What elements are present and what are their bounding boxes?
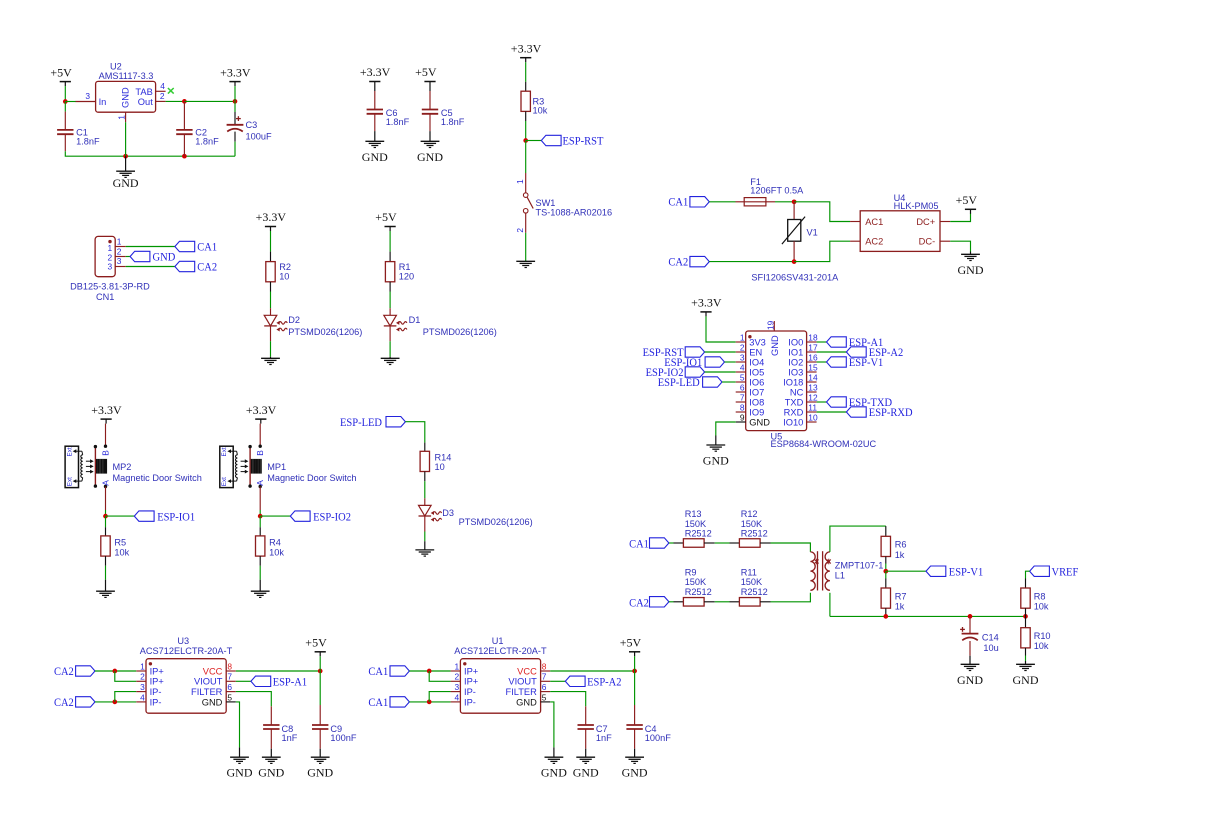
svg-text:ESP-V1: ESP-V1: [949, 564, 983, 578]
svg-text:4: 4: [455, 692, 460, 702]
wire: [236, 670, 320, 672]
junction: [792, 259, 797, 264]
svg-text:+5V: +5V: [956, 193, 978, 207]
IC U1 pin 2 IP+: [451, 680, 461, 682]
ground: [270, 357, 272, 359]
resistor R7: [885, 571, 887, 578]
svg-text:R2512: R2512: [685, 529, 712, 539]
svg-text:1206FT 0.5A: 1206FT 0.5A: [750, 186, 804, 196]
svg-text:SFI1206SV431-201A: SFI1206SV431-201A: [751, 272, 839, 282]
svg-text:B: B: [255, 450, 265, 456]
capacitor C14: [969, 616, 971, 633]
wire: [95, 701, 136, 703]
svg-text:U2: U2: [110, 61, 122, 71]
wire: [715, 601, 730, 603]
svg-text:R2512: R2512: [741, 529, 768, 539]
LED D2: [270, 308, 272, 315]
svg-text:5: 5: [542, 692, 547, 702]
wire: [1025, 656, 1027, 662]
resistor R6: [885, 526, 887, 536]
svg-text:ESP8684-WROOM-02UC: ESP8684-WROOM-02UC: [771, 439, 877, 449]
net flag GND: [130, 251, 150, 261]
svg-text:CA2: CA2: [668, 255, 688, 269]
svg-text:R13: R13: [685, 509, 702, 519]
wire: [236, 702, 240, 748]
ground: [270, 749, 272, 758]
wire: [429, 671, 450, 681]
wire: [64, 102, 66, 112]
svg-text:FILTER: FILTER: [191, 687, 223, 697]
svg-text:GND: GND: [703, 454, 729, 468]
wire: [705, 351, 736, 353]
wire: [705, 371, 736, 373]
svg-text:1: 1: [455, 661, 460, 671]
svg-text:11: 11: [808, 402, 817, 412]
svg-text:GND: GND: [573, 766, 599, 780]
svg-text:16: 16: [808, 352, 818, 362]
junction: [968, 614, 973, 619]
net flag ESP-A1: [236, 680, 251, 682]
wire: [270, 231, 272, 252]
wire: [115, 671, 136, 681]
svg-text:100nF: 100nF: [330, 733, 356, 743]
svg-text:GND: GND: [957, 673, 983, 687]
svg-text:1: 1: [108, 243, 113, 253]
ground: [374, 131, 376, 141]
junction: [233, 99, 238, 104]
net flag ESP-RXD: [817, 411, 847, 413]
svg-text:1nF: 1nF: [596, 733, 612, 743]
svg-text:R6: R6: [895, 540, 907, 550]
svg-text:IO5: IO5: [749, 367, 764, 377]
wire: [550, 702, 554, 748]
wire: [634, 656, 636, 671]
svg-text:IO8: IO8: [749, 397, 764, 407]
svg-text:ZMPT107-1: ZMPT107-1: [835, 560, 884, 570]
transformer L1 primary: [810, 552, 815, 590]
svg-text:ESP-IO1: ESP-IO1: [157, 509, 195, 523]
svg-text:19: 19: [765, 320, 775, 330]
svg-text:+3.3V: +3.3V: [691, 296, 722, 310]
wire: [722, 381, 736, 383]
transformer L1 polarity marks: [815, 560, 819, 564]
wire: [669, 542, 674, 544]
wire: [950, 241, 970, 251]
svg-text:1k: 1k: [895, 602, 905, 612]
resistor R1: [389, 252, 391, 262]
junction: [182, 154, 187, 159]
wire: [105, 510, 107, 516]
net flag ESP-V1: [817, 361, 827, 363]
svg-text:10k: 10k: [269, 547, 284, 557]
svg-text:7: 7: [740, 392, 745, 402]
svg-text:2: 2: [455, 672, 460, 682]
svg-text:C3: C3: [246, 120, 258, 130]
wire: [709, 261, 794, 263]
capacitor C6: [374, 86, 376, 91]
wire: [389, 231, 391, 252]
capacitor C9: [319, 671, 321, 705]
resistor R9: [674, 601, 684, 603]
svg-text:R2512: R2512: [741, 587, 768, 597]
junction: [63, 99, 68, 104]
net flag ESP-V1: [886, 570, 926, 572]
svg-text:100uF: 100uF: [246, 131, 272, 141]
wire: [389, 341, 391, 357]
svg-text:ACS712ELCTR-20A-T: ACS712ELCTR-20A-T: [140, 646, 233, 656]
ground: [389, 357, 391, 359]
net flag ESP-TXD: [817, 401, 827, 403]
junction: [182, 99, 187, 104]
svg-text:5: 5: [740, 372, 745, 382]
ground: [319, 749, 321, 758]
svg-text:HLK-PM05: HLK-PM05: [894, 201, 939, 211]
IC U5 pin 7 IO8: [736, 401, 746, 403]
svg-text:IO10: IO10: [783, 417, 803, 427]
svg-text:GND: GND: [202, 697, 223, 707]
svg-text:IO2: IO2: [788, 357, 803, 367]
svg-text:8: 8: [740, 402, 745, 412]
capacitor C4: [634, 671, 636, 705]
svg-text:120: 120: [399, 272, 414, 282]
wire: [526, 140, 542, 142]
svg-text:GND: GND: [227, 766, 253, 780]
ground: [239, 747, 241, 757]
svg-text:CA2: CA2: [197, 259, 217, 273]
svg-text:IO3: IO3: [788, 367, 803, 377]
ground: [259, 580, 261, 592]
svg-text:15: 15: [808, 362, 818, 372]
svg-text:GND: GND: [417, 150, 443, 164]
wire: [270, 341, 272, 357]
svg-text:GND: GND: [1013, 673, 1039, 687]
svg-text:IP+: IP+: [150, 666, 164, 676]
wire: [709, 201, 735, 203]
wire: [65, 101, 76, 103]
svg-text:7: 7: [542, 672, 547, 682]
transformer L1 secondary: [825, 552, 830, 590]
svg-text:D1: D1: [409, 315, 421, 325]
svg-text:IO18: IO18: [783, 377, 803, 387]
wire: [95, 670, 136, 672]
wire: [794, 241, 850, 261]
IC U3 pin 3 IP-: [136, 691, 146, 693]
ground: [105, 580, 107, 592]
wire: [794, 202, 850, 222]
svg-text:Magnetic Door Switch: Magnetic Door Switch: [267, 473, 356, 483]
ground: [429, 131, 431, 141]
svg-text:IP-: IP-: [150, 687, 162, 697]
svg-text:CA1: CA1: [629, 536, 649, 550]
svg-text:L1: L1: [835, 571, 845, 581]
svg-text:ESP-IO2: ESP-IO2: [313, 509, 351, 523]
svg-text:VREF: VREF: [1052, 564, 1079, 578]
junction: [112, 700, 117, 705]
svg-text:ACS712ELCTR-20A-T: ACS712ELCTR-20A-T: [454, 646, 547, 656]
ground: [125, 156, 127, 171]
svg-text:1: 1: [117, 237, 122, 247]
no-connect X: [168, 88, 174, 94]
wire: [236, 692, 271, 707]
wire: [771, 543, 811, 552]
wire: [126, 256, 130, 258]
svg-text:+3.3V: +3.3V: [91, 403, 122, 417]
wire: [166, 100, 185, 102]
LED D3: [424, 498, 426, 505]
capacitor C1: [64, 112, 66, 130]
wire: [259, 510, 261, 516]
wire: [319, 656, 321, 671]
IC U3 pin 7 VIOUT: [226, 680, 236, 682]
IC U3 pin 1 IP+: [136, 670, 146, 672]
svg-text:VIOUT: VIOUT: [194, 677, 223, 687]
svg-text:8: 8: [227, 661, 232, 671]
svg-text:4: 4: [140, 692, 145, 702]
svg-text:U3: U3: [177, 636, 189, 646]
junction: [792, 199, 797, 204]
net flag ESP-A2: [550, 680, 565, 682]
svg-text:GND: GND: [121, 87, 131, 108]
capacitor C2: [183, 101, 185, 129]
junction: [103, 514, 108, 519]
connector CN1 pin 1: [115, 246, 126, 248]
svg-text:DB125-3.81-3P-RD: DB125-3.81-3P-RD: [70, 281, 150, 291]
wire: [829, 593, 831, 617]
svg-text:GND: GND: [622, 766, 648, 780]
junction: [883, 614, 888, 619]
wire: [725, 361, 736, 363]
svg-text:IP+: IP+: [464, 666, 478, 676]
module U4 pin AC2: [850, 240, 860, 242]
svg-text:CA1: CA1: [368, 695, 388, 709]
svg-text:7: 7: [227, 672, 232, 682]
svg-text:GND: GND: [258, 766, 284, 780]
svg-text:+5V: +5V: [50, 65, 72, 79]
svg-text:10: 10: [808, 412, 818, 422]
svg-text:VIOUT: VIOUT: [508, 677, 537, 687]
svg-text:A: A: [100, 480, 110, 486]
wire: [525, 141, 527, 174]
junction: [123, 154, 128, 159]
IC U5 pin 6 IO7: [736, 391, 746, 393]
wire: [259, 566, 261, 580]
svg-text:C14: C14: [982, 633, 999, 643]
svg-text:10k: 10k: [114, 547, 129, 557]
svg-text:6: 6: [227, 682, 232, 692]
svg-text:1.8nF: 1.8nF: [76, 137, 100, 147]
IC U5 pin 4 IO5: [736, 371, 746, 373]
junction: [258, 514, 263, 519]
IC U1 pin 6 FILTER: [541, 691, 551, 693]
svg-text:150K: 150K: [685, 519, 707, 529]
svg-text:1.8nF: 1.8nF: [441, 117, 465, 127]
IC U1: [460, 659, 540, 714]
IC U5 pin 17 IO1: [807, 351, 817, 353]
svg-text:TS-1088-AR02016: TS-1088-AR02016: [536, 207, 613, 217]
wire: [234, 86, 236, 101]
svg-text:10u: 10u: [983, 643, 998, 653]
ground: [970, 252, 972, 255]
capacitor C3: [234, 112, 236, 125]
svg-text:GND: GND: [958, 263, 984, 277]
wire: [389, 292, 391, 309]
svg-text:In: In: [99, 97, 107, 107]
module U4 pin AC1: [850, 221, 860, 223]
wire: [525, 233, 527, 261]
wire: [669, 601, 674, 603]
svg-text:TXD: TXD: [785, 397, 804, 407]
ground: [634, 749, 636, 758]
svg-text:18: 18: [808, 332, 818, 342]
module U4: [860, 211, 940, 252]
wire: [775, 201, 794, 203]
svg-text:SW1: SW1: [536, 198, 556, 208]
IC U5 pin 5 IO6: [736, 381, 746, 383]
svg-text:13: 13: [808, 382, 818, 392]
svg-text:+3.3V: +3.3V: [360, 65, 391, 79]
IC U5 pin 15 IO3: [807, 371, 817, 373]
wire: [525, 121, 527, 141]
svg-text:+5V: +5V: [375, 210, 397, 224]
switch MP2: [105, 424, 107, 447]
IC U3 pin 6 FILTER: [226, 691, 236, 693]
wire: [885, 564, 887, 572]
svg-text:2: 2: [740, 342, 745, 352]
wire: [405, 422, 424, 443]
wire: [429, 692, 450, 702]
IC U5 pin 11 RXD: [807, 411, 817, 413]
svg-text:AC2: AC2: [865, 237, 883, 247]
IC U1 pin 3 IP-: [451, 691, 461, 693]
svg-text:GND: GND: [541, 766, 567, 780]
svg-text:R8: R8: [1034, 591, 1046, 601]
module U4 pin DC-: [940, 240, 950, 242]
svg-text:IO0: IO0: [788, 337, 803, 347]
svg-text:DC+: DC+: [916, 217, 935, 227]
svg-text:Magnetic Door Switch: Magnetic Door Switch: [113, 473, 202, 483]
capacitor C7: [585, 706, 587, 725]
IC U5 pin 10 IO10: [807, 421, 817, 423]
svg-text:V1: V1: [807, 227, 818, 237]
svg-text:NC: NC: [790, 387, 804, 397]
IC U5 pin 19 GND: [773, 321, 775, 331]
svg-text:IP-: IP-: [150, 697, 162, 707]
ground: [715, 436, 717, 446]
svg-text:CA1: CA1: [197, 239, 217, 253]
net flag CA2: [175, 261, 195, 271]
junction: [318, 669, 323, 674]
svg-text:Ext: Ext: [66, 447, 73, 456]
wire: [830, 615, 1026, 617]
varistor V1: [793, 202, 795, 220]
svg-text:TAB: TAB: [135, 87, 152, 97]
svg-text:MP1: MP1: [267, 462, 286, 472]
wire: [65, 151, 235, 156]
switch SW1: [525, 173, 527, 193]
resistor R12: [730, 542, 740, 544]
svg-text:3: 3: [740, 352, 745, 362]
switch MP1: [259, 424, 261, 447]
IC U5 pin 12 TXD: [807, 401, 817, 403]
IC U3 pin 5 GND: [226, 701, 236, 703]
svg-text:PTSMD026(1206): PTSMD026(1206): [459, 517, 533, 527]
junction: [1023, 614, 1028, 619]
op-amp U2: [96, 81, 156, 112]
IC U1 pin 7 VIOUT: [541, 680, 551, 682]
op-amp U2 pin 2: [156, 100, 166, 102]
junction: [112, 669, 117, 674]
op-amp U2 pin 1: [125, 112, 127, 122]
svg-text:+5V: +5V: [415, 65, 437, 79]
svg-text:GND: GND: [153, 249, 176, 263]
IC U1 pin 5 GND: [541, 701, 551, 703]
connector CN1 pin 3: [115, 266, 126, 268]
svg-text:DC-: DC-: [919, 237, 936, 247]
wire: [706, 316, 736, 342]
svg-text:2: 2: [117, 246, 122, 256]
IC U5 pin 9 GND: [736, 421, 746, 423]
svg-text:R14: R14: [435, 452, 452, 462]
IC U3 pin 4 IP-: [136, 701, 146, 703]
svg-text:10k: 10k: [1034, 602, 1049, 612]
svg-text:R7: R7: [895, 591, 907, 601]
wire: [550, 670, 634, 672]
svg-text:AMS1117-3.3: AMS1117-3.3: [99, 71, 154, 81]
wire: [184, 100, 235, 102]
svg-text:10k: 10k: [533, 106, 548, 116]
wire: [126, 266, 175, 268]
svg-text:100nF: 100nF: [645, 733, 671, 743]
wire: [105, 566, 107, 580]
svg-text:IO4: IO4: [749, 357, 764, 367]
svg-text:R4: R4: [269, 538, 281, 548]
wire: [1026, 571, 1030, 578]
svg-text:ESP-LED: ESP-LED: [658, 375, 700, 389]
svg-text:CA2: CA2: [54, 695, 74, 709]
resistor R11: [730, 601, 740, 603]
svg-text:17: 17: [808, 342, 818, 352]
IC U5 pin 3 IO4: [736, 361, 746, 363]
fuse F1: [736, 201, 745, 203]
IC U5 pin 1 3V3: [736, 341, 746, 343]
transformer L1 core: [817, 551, 819, 590]
IC U5 pin 2 EN: [736, 351, 746, 353]
svg-text:PTSMD026(1206): PTSMD026(1206): [288, 327, 362, 337]
svg-text:D2: D2: [288, 315, 300, 325]
IC U1 pin 8 VCC: [541, 670, 551, 672]
wire: [115, 692, 136, 702]
svg-text:IO6: IO6: [749, 377, 764, 387]
svg-text:4: 4: [160, 81, 165, 91]
IC U1 pin 1 IP+: [451, 670, 461, 672]
svg-text:1: 1: [117, 115, 127, 120]
svg-text:3: 3: [117, 256, 122, 266]
svg-text:Ext: Ext: [221, 477, 228, 486]
svg-text:14: 14: [808, 372, 818, 382]
svg-text:U1: U1: [492, 636, 504, 646]
svg-text:GND: GND: [113, 176, 139, 190]
svg-text:GND: GND: [516, 697, 537, 707]
resistor R10: [1025, 616, 1027, 627]
resistor R2: [270, 252, 272, 262]
capacitor C5: [429, 86, 431, 91]
svg-text:ESP-V1: ESP-V1: [849, 355, 883, 369]
svg-text:3: 3: [85, 91, 90, 101]
svg-text:FILTER: FILTER: [505, 687, 537, 697]
svg-text:3: 3: [140, 682, 145, 692]
resistor R5: [105, 516, 107, 527]
svg-text:12: 12: [808, 392, 818, 402]
